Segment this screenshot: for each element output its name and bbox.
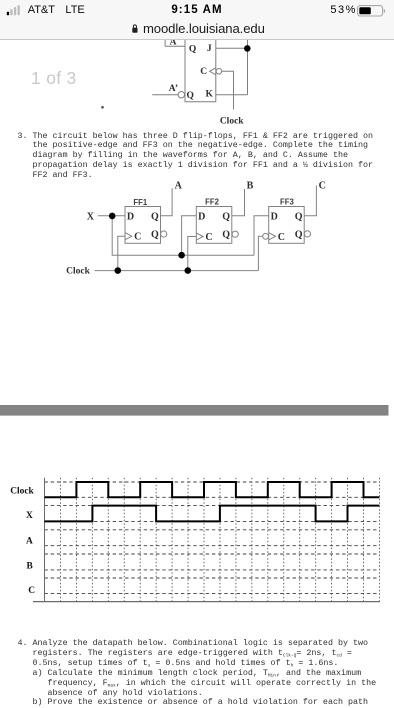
wire J output feedback top: [216, 47, 248, 49]
svg-text:Q: Q: [187, 91, 194, 101]
svg-text:Q: Q: [189, 44, 196, 54]
wire FF1 Q to A: [161, 188, 173, 216]
svg-text:Clock: Clock: [220, 117, 244, 127]
wire clock rail: [95, 270, 259, 272]
svg-text:K: K: [206, 89, 214, 99]
svg-text:D: D: [198, 212, 205, 223]
svg-text:Q: Q: [151, 230, 159, 241]
bubble clock FF3 (negative edge): [263, 233, 269, 239]
svg-text:Clock: Clock: [10, 487, 34, 497]
browser header: [0, 0, 394, 40]
junction dot J feedback: [244, 45, 251, 52]
dashed level line B low: [45, 569, 380, 571]
bubble Qbar FF1: [161, 231, 167, 237]
carrier label: [28, 4, 55, 16]
dashed level line clock low: [45, 496, 380, 498]
dashed level line B high: [45, 553, 380, 555]
dashed level line C high: [45, 577, 380, 579]
dashed level line A high: [45, 529, 380, 531]
svg-text:D: D: [271, 212, 278, 223]
wire FF3 Q to C: [304, 186, 316, 216]
wire FF3 D branch: [254, 216, 269, 256]
svg-text:FF2: FF2: [205, 197, 220, 206]
dashed level line A low: [45, 545, 380, 547]
svg-text:Q: Q: [222, 212, 230, 223]
svg-text:C: C: [278, 232, 285, 243]
svg-text:B: B: [247, 181, 254, 192]
wire X input: [98, 215, 125, 217]
bubble clock JK: [216, 69, 222, 75]
wire FF2 clock branch: [188, 237, 197, 271]
svg-text:D: D: [127, 212, 134, 223]
svg-text:Q: Q: [295, 229, 303, 240]
clock triangle JK (points left): [210, 68, 216, 75]
page indicator 1 of 3: [31, 68, 77, 89]
svg-text:A’: A’: [169, 84, 178, 94]
box FF1: [125, 207, 161, 244]
clock triangle FF1: [125, 233, 132, 240]
clock triangle FF3: [269, 233, 276, 240]
junction dot clock FF2: [185, 267, 192, 274]
gray separator bar: [0, 405, 389, 416]
battery icon: [357, 5, 387, 17]
junction dot clock FF1: [115, 267, 122, 274]
svg-text:C: C: [28, 586, 35, 596]
bottom axis line: [33, 601, 380, 603]
signal bars: [6, 5, 22, 16]
dashed level line X high: [45, 505, 380, 507]
svg-text:A: A: [26, 536, 33, 546]
box FF2: [196, 207, 232, 244]
bubble Qbar FF2: [232, 231, 238, 237]
junction dot FF2 D: [178, 252, 185, 259]
bubble Qbar FF3: [304, 231, 310, 237]
svg-text:X: X: [87, 211, 95, 222]
clock time: [0, 4, 394, 16]
JK flip-flop box (top, cut off): [185, 40, 216, 102]
wire FF1 clock branch: [118, 236, 125, 270]
svg-text:J: J: [207, 44, 212, 54]
wire feedback vertical: [247, 38, 249, 95]
vertical division dotted lines: [60, 478, 379, 602]
left axis line: [44, 478, 46, 602]
wire A input horizontal: [165, 38, 185, 46]
waveform X: [45, 506, 380, 522]
wire K feedback bottom: [216, 94, 248, 96]
svg-text:C: C: [134, 232, 141, 243]
svg-text:FF1: FF1: [133, 198, 148, 207]
svg-text:C: C: [205, 232, 212, 243]
wire A-prime input: [152, 94, 178, 96]
wire clock JK: [222, 71, 234, 109]
wire X distribution down and across: [112, 216, 254, 256]
lock icon: [132, 24, 138, 34]
wire FF2 D branch: [182, 216, 197, 256]
svg-text:X: X: [26, 511, 33, 521]
svg-text:C: C: [319, 181, 326, 192]
waveform Clock: [45, 482, 380, 497]
battery percent: [330, 4, 357, 16]
stray dot artifact: [101, 106, 104, 109]
svg-text:FF3: FF3: [280, 198, 295, 207]
dashed level line C low: [45, 593, 380, 595]
svg-text:C: C: [200, 67, 207, 77]
svg-text:Q: Q: [222, 230, 230, 241]
svg-text:Clock: Clock: [66, 267, 90, 277]
wire FF2 Q to B: [232, 189, 245, 216]
svg-text:Q: Q: [295, 212, 303, 223]
question 4 text: [18, 639, 377, 708]
svg-text:Q: Q: [151, 212, 159, 223]
box FF3: [269, 207, 305, 244]
question 3 text: [18, 132, 374, 181]
junction dot X: [109, 213, 116, 220]
clock triangle FF2: [196, 233, 203, 240]
svg-text:B: B: [27, 562, 33, 572]
wire FF3 clock branch: [258, 236, 262, 270]
dashed level line clock high: [45, 481, 380, 483]
dashed level line X low: [45, 520, 380, 522]
url text: [143, 21, 265, 36]
bubble A-prime input: [178, 92, 184, 98]
svg-text:A: A: [175, 181, 183, 192]
